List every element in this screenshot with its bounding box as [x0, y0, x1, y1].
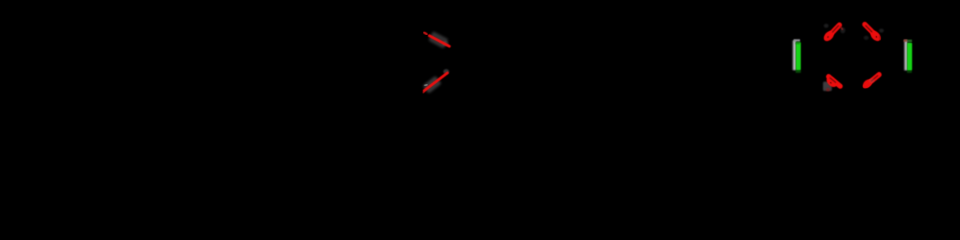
wire: [826, 23, 880, 87]
wire: [60, 65, 185, 80]
carbonyl O top-left: dim tail: [840, 27, 842, 30]
chlorine Cl right: gray H strip gradient: [904, 40, 908, 70]
carbonyl O top-left: gray wisps: [824, 24, 829, 28]
methoxy O2: halo: [422, 76, 441, 94]
chlorine Cl right: greenish cap: [907, 40, 912, 43]
carbonyl O top-left: double-bond seam: [832, 25, 839, 32]
methoxy O1: CH3-O red bond half: [424, 33, 427, 35]
carbonyl O top-right: red bond bar: [865, 24, 874, 33]
methoxy O2: white tick: [425, 84, 427, 87]
methoxy O1: red O-bond streak: [429, 36, 449, 47]
carbonyl O bottom-right: double-bond seam: [871, 75, 878, 81]
carbonyl O bottom-left: red bond bar: [829, 77, 841, 87]
reaction arrow (invisible black): [560, 57, 760, 67]
chlorine Cl left: faint green tail: [796, 70, 801, 73]
carbonyl O top-left: red bond bar: [830, 25, 839, 34]
wire: [410, 24, 462, 98]
reactant hydrocarbon skeleton (invisible black bonds): [60, 65, 185, 80]
carbonyl O bottom-right: red bond bar: [867, 75, 879, 85]
methoxy O2: halo spot near upper tip: [443, 69, 449, 74]
methoxy O1: halo: [428, 31, 448, 48]
methoxy O2: red tail: [423, 91, 424, 93]
plus sign: [300, 62, 320, 82]
chlorine Cl right: reddish cap: [904, 39, 908, 41]
carbonyl O top-right: glyph blob: [869, 29, 883, 43]
product ring skeleton (invisible black bonds): [826, 23, 880, 87]
methoxy O2: red O-bond streak: [424, 73, 447, 91]
carbonyl O bottom-right: glyph hook: [865, 81, 871, 86]
carbonyl O top-right: double-bond seam: [865, 25, 872, 32]
chlorine Cl left: gray H strip gradient: [792, 40, 796, 70]
carbonyl O bottom-left: double-bond seam: [830, 78, 836, 83]
methoxy O1: extra halo spot: [442, 41, 448, 46]
carbonyl O bottom-left: gray H square: [823, 82, 832, 91]
carbonyl O bottom-right: gray wisp: [869, 78, 874, 83]
carbonyl O bottom-left: glyph blob: [825, 75, 839, 89]
chlorine Cl left: green bar: [796, 42, 801, 70]
carbonyl O top-right: dim tail: [879, 37, 880, 39]
diene molecule skeleton (invisible black bonds): [410, 24, 462, 98]
chlorine Cl left: green bar top dim segment: [796, 42, 801, 44]
carbonyl O bottom-right: glyph blob: [861, 78, 873, 90]
carbonyl O bottom-left: dim red dots below: [826, 88, 830, 91]
wire: [560, 57, 760, 67]
carbonyl O top-right: gray wisps: [879, 29, 884, 33]
chlorine Cl left: gray cap band: [794, 39, 800, 42]
chlorine Cl right: faint green tail: [907, 70, 912, 72]
carbonyl O top-left: glyph blob: [822, 29, 836, 43]
chlorine Cl right: green bar: [907, 43, 912, 71]
